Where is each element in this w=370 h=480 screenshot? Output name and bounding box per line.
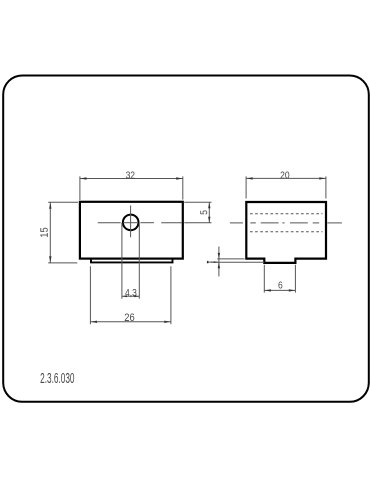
hole circle [123,215,139,231]
dimension 15 (left of front view) [48,202,78,263]
hidden hole line upper [250,213,323,215]
svg-text:2.3.6.030: 2.3.6.030 [40,370,75,387]
small tab-height dimension (left of side view) [211,247,264,277]
drawing sheet border [3,76,369,402]
hole tangent extension lines down to 4,3 dimension [122,223,139,299]
svg-text:15: 15 [39,227,51,238]
front view body outline [80,202,183,259]
svg-text:5: 5 [199,210,210,215]
front view bottom step [91,259,173,263]
svg-text:26: 26 [124,312,135,324]
side view centerline [230,222,342,224]
side view body outline with bottom tab [246,202,326,263]
svg-text:32: 32 [126,170,135,181]
dimension 26 (bottom step width) [90,266,170,324]
tiny leader with value mark [207,261,217,263]
dimension 20 (top of side view) [246,176,326,198]
svg-text:6: 6 [278,280,283,291]
hole horizontal centerline [98,222,182,224]
hidden hole line lower [250,231,323,233]
svg-text:4,3: 4,3 [125,287,137,298]
svg-text:20: 20 [280,170,289,181]
dimension 6 (tab width) [264,265,295,293]
hole vertical centerline [130,206,132,238]
dimension 32 (top of front view) [80,176,183,200]
dimension 4,3 (hole width) [122,295,139,297]
dimension 5 (right of front view, top edge to hole center) [184,202,211,223]
